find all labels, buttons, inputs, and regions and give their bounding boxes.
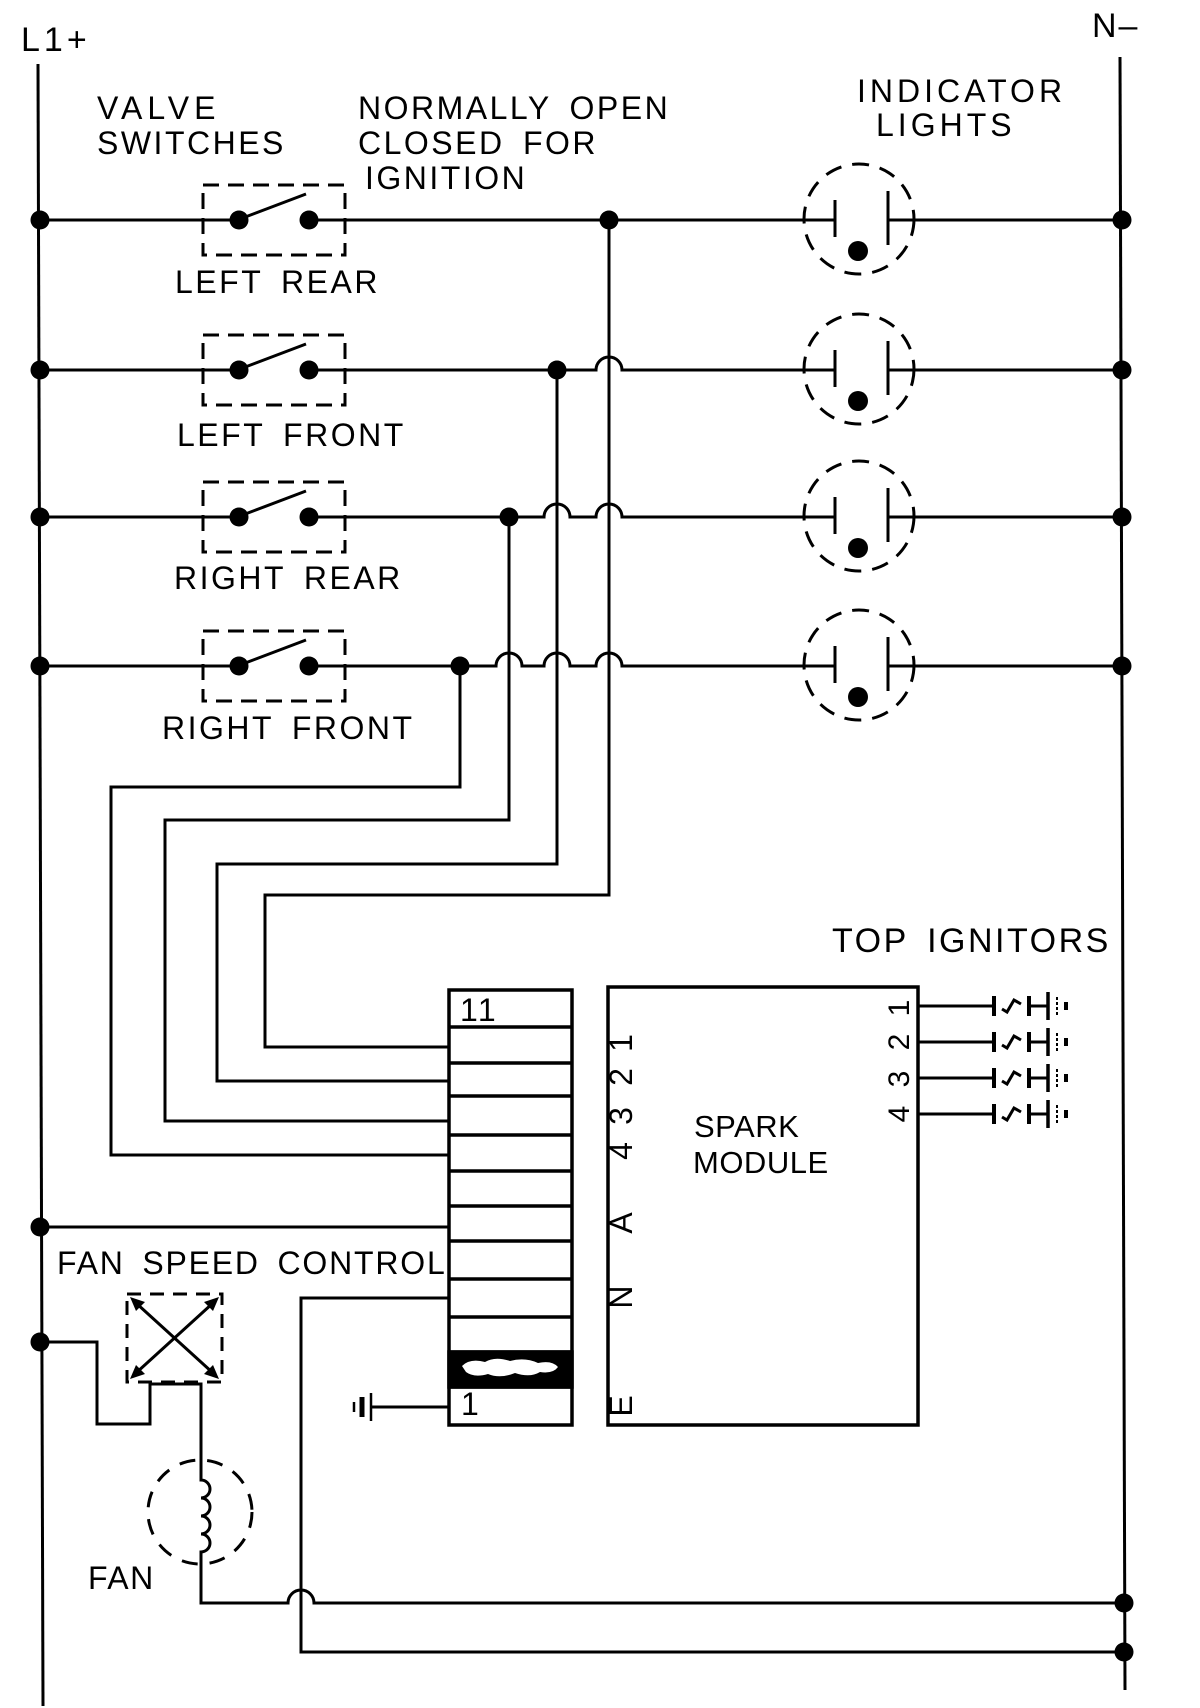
svg-text:LEFT FRONT: LEFT FRONT [177,417,406,453]
svg-text:3: 3 [883,1071,916,1088]
svg-text:1: 1 [603,1034,639,1052]
svg-text:RIGHT REAR: RIGHT REAR [174,560,403,596]
svg-text:INDICATOR: INDICATOR [857,73,1066,109]
svg-text:E: E [603,1395,639,1416]
svg-text:4: 4 [883,1106,916,1123]
svg-text:RIGHT FRONT: RIGHT FRONT [162,710,415,746]
svg-text:SPARK: SPARK [694,1109,799,1144]
svg-text:1: 1 [461,1386,481,1422]
svg-text:2: 2 [603,1068,639,1086]
svg-text:N–: N– [1092,7,1139,45]
svg-text:CLOSED FOR: CLOSED FOR [358,125,598,161]
svg-text:1: 1 [883,1000,916,1017]
svg-text:LIGHTS: LIGHTS [876,107,1016,143]
svg-text:VALVE: VALVE [97,90,220,126]
svg-text:FAN: FAN [88,1560,155,1596]
svg-text:TOP IGNITORS: TOP IGNITORS [832,922,1111,960]
svg-text:MODULE: MODULE [693,1145,829,1180]
svg-text:L1+: L1+ [21,21,91,59]
svg-text:IGNITION: IGNITION [365,160,527,196]
svg-text:LEFT REAR: LEFT REAR [175,264,380,300]
svg-text:NORMALLY OPEN: NORMALLY OPEN [358,90,670,126]
svg-text:4: 4 [603,1142,639,1160]
svg-text:A: A [603,1212,639,1234]
svg-text:3: 3 [603,1107,639,1125]
svg-text:11: 11 [460,992,498,1028]
svg-text:FAN SPEED CONTROL: FAN SPEED CONTROL [57,1245,447,1281]
svg-text:SWITCHES: SWITCHES [97,125,286,161]
svg-text:N: N [603,1285,639,1308]
svg-text:2: 2 [883,1034,916,1051]
